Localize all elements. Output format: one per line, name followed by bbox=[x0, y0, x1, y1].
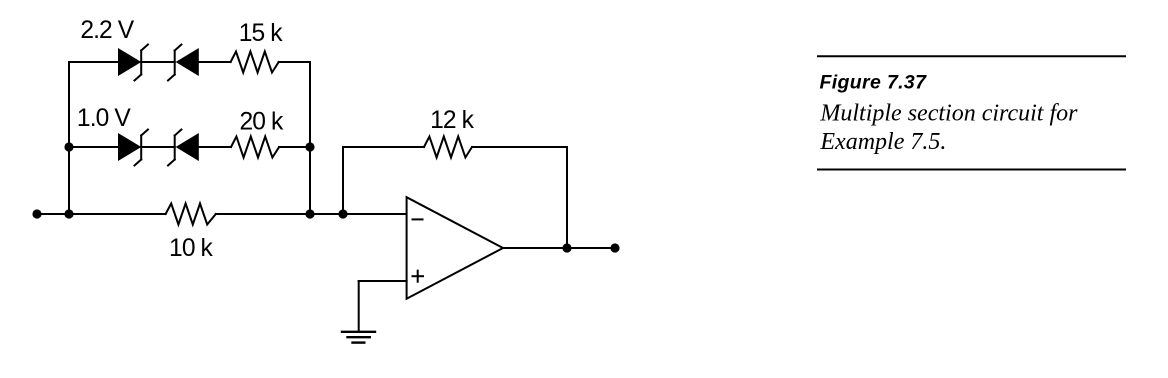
svg-text:10 k: 10 k bbox=[169, 235, 213, 262]
svg-text:12 k: 12 k bbox=[430, 107, 474, 134]
svg-text:Figure 7.37: Figure 7.37 bbox=[820, 72, 928, 94]
svg-text:2.2 V: 2.2 V bbox=[80, 17, 134, 44]
svg-text:20 k: 20 k bbox=[239, 108, 283, 135]
svg-text:15 k: 15 k bbox=[239, 20, 283, 47]
svg-text:Example 7.5.: Example 7.5. bbox=[819, 129, 946, 155]
svg-text:Multiple section circuit for: Multiple section circuit for bbox=[819, 100, 1078, 126]
svg-text:1.0 V: 1.0 V bbox=[77, 105, 131, 132]
